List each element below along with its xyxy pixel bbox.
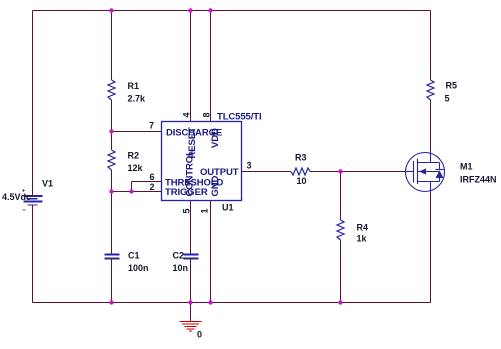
capacitor C1 [105, 251, 149, 274]
wire: threshold pin 6 horizontal [132, 181, 162, 183]
wire: top rail [33, 10, 431, 12]
svg-text:R1: R1 [128, 81, 140, 91]
svg-text:GND: GND [210, 175, 221, 196]
wire: left rail upper [32, 11, 34, 197]
wire: C1 to bottom rail [111, 259, 113, 303]
resistor R4 [337, 220, 368, 244]
wire: output pin 3 to R3 [242, 171, 292, 173]
wire: pin7 node to R2 [111, 132, 113, 151]
wire: pin 8 vdd to top rail [210, 11, 212, 122]
wire: pin 5 control to C2 [190, 201, 192, 255]
svg-text:10: 10 [297, 176, 307, 186]
svg-text:R4: R4 [357, 223, 369, 233]
wire: pin 1 gnd to bottom rail [210, 201, 212, 303]
svg-text:V1: V1 [42, 179, 53, 189]
svg-text:R5: R5 [446, 81, 458, 91]
op-amp U1 timer TLC555 chip body [162, 112, 262, 213]
svg-text:TLC555/TI: TLC555/TI [217, 112, 262, 123]
resistor R1 [108, 80, 146, 104]
node junction bottom rail / C1 [109, 300, 113, 304]
node junction threshold jog [129, 189, 133, 193]
ground 0 [180, 322, 203, 340]
node junction top rail / pin8 [208, 8, 212, 12]
svg-text:3: 3 [247, 161, 252, 171]
svg-text:7: 7 [149, 121, 154, 131]
svg-text:R3: R3 [295, 153, 307, 163]
svg-text:5: 5 [182, 208, 192, 213]
wire: top rail to R1 [111, 11, 113, 81]
wire: left rail lower [32, 205, 34, 303]
svg-text:C1: C1 [128, 251, 140, 261]
svg-text:12k: 12k [128, 163, 144, 173]
wire: R5 to MOSFET drain [430, 100, 432, 153]
node junction top rail / pin4 [188, 8, 192, 12]
wire: R4 to bottom rail [340, 240, 342, 303]
node junction gate / R4 [338, 169, 342, 173]
svg-text:R2: R2 [128, 151, 140, 161]
svg-text:5: 5 [445, 94, 450, 104]
wire: pin 4 reset to top rail [190, 11, 192, 122]
svg-text:4.5Vdc: 4.5Vdc [2, 192, 31, 202]
svg-text:100n: 100n [128, 263, 149, 273]
svg-text:0: 0 [197, 330, 202, 340]
transistor M1 MOSFET IRFZ44N [406, 153, 497, 192]
wire: R1 to node pin7 [111, 100, 113, 132]
wire: trigger pin 2 horizontal [112, 191, 162, 193]
resistor R5 [427, 80, 457, 104]
svg-text:M1: M1 [460, 162, 473, 172]
wire: discharge pin 7 horizontal [112, 131, 162, 133]
wire: C2 to bottom rail [190, 259, 192, 303]
svg-text:4: 4 [182, 112, 192, 117]
resistor R3 [291, 153, 310, 187]
svg-text:8: 8 [202, 112, 212, 117]
wire: trigger node to C1 [111, 192, 113, 255]
wire: R3 to MOSFET gate [310, 171, 406, 173]
svg-text:2: 2 [149, 182, 154, 192]
svg-text:CONTROL: CONTROL [185, 150, 196, 197]
svg-text:1k: 1k [357, 234, 368, 244]
wire: bottom rail [33, 302, 431, 304]
svg-text:10n: 10n [173, 263, 189, 273]
wire: gate node to R4 [340, 172, 342, 221]
wire: threshold jog vertical [131, 182, 133, 192]
node junction bottom rail / pin1 [208, 300, 212, 304]
node junction trigger left [109, 189, 113, 193]
svg-text:2.7k: 2.7k [128, 94, 147, 104]
svg-text:IRFZ44N: IRFZ44N [460, 175, 497, 185]
node junction top rail / R1 [109, 8, 113, 12]
wire: right rail top to R5 [430, 11, 432, 81]
svg-text:VDD: VDD [210, 128, 221, 148]
svg-text:U1: U1 [222, 203, 234, 213]
node junction discharge [109, 129, 113, 133]
svg-text:6: 6 [149, 172, 154, 182]
battery V1 [2, 179, 53, 211]
resistor R2 [108, 150, 144, 173]
node junction bottom rail / ground [188, 300, 192, 304]
node junction bottom rail / R4 [338, 300, 342, 304]
wire: ground stem [190, 303, 192, 322]
capacitor C2 [173, 251, 199, 274]
svg-text:1: 1 [200, 208, 210, 213]
svg-text:C2: C2 [173, 251, 185, 261]
wire: MOSFET source to bottom rail [430, 191, 432, 303]
wire: R2 to trigger node [111, 170, 113, 192]
